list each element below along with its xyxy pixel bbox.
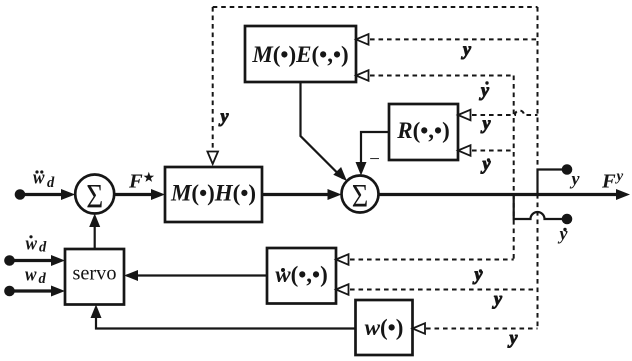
block w(.) bbox=[356, 300, 413, 355]
open arrow into M(.)E right top bbox=[356, 34, 369, 45]
wire dashed H7 into wdot block bottom-right (y) bbox=[350, 289, 538, 291]
svg-text:d: d bbox=[39, 271, 47, 287]
wire w block output to servo bottom bbox=[96, 317, 356, 329]
svg-text:y: y bbox=[492, 289, 503, 309]
wire M(.)H(.) to sum2 bbox=[262, 193, 330, 196]
node ydot label at output dot bbox=[558, 224, 569, 244]
svg-text:F: F bbox=[601, 171, 616, 193]
summing junction sum1 bbox=[75, 175, 114, 214]
wire dashed vertical into M(.)H(.) top, x=212.7 bbox=[212, 7, 214, 153]
svg-text:F: F bbox=[128, 171, 143, 193]
node label w_d input bbox=[25, 265, 47, 288]
node ydot label H5 bbox=[481, 154, 492, 174]
arrow into servo left wdot_d bbox=[51, 255, 65, 266]
node input dot wd2dot bbox=[15, 189, 26, 200]
wire dashed H4 into R top-right (y) with hop over V2 bbox=[472, 111, 538, 116]
node label wdot_d input bbox=[26, 234, 48, 256]
wire dashed H6 into wdot block top-right (ydot) bbox=[350, 259, 514, 261]
wire dashed H5 into R bottom-right (ydot) bbox=[472, 150, 514, 152]
svg-text:M(•)E(•,•): M(•)E(•,•) bbox=[251, 42, 348, 67]
open arrow into wdot right bottom bbox=[336, 284, 349, 295]
block M(.)E(.,.) U-ME bbox=[245, 26, 356, 82]
wire wdot block to servo right bbox=[137, 274, 267, 276]
svg-text:servo: servo bbox=[73, 261, 117, 285]
wire input w_d to servo bbox=[10, 289, 53, 292]
block servo bbox=[65, 249, 124, 305]
wire dashed H3 into M(.)E bottom-right (ydot) bbox=[370, 75, 514, 77]
wire R output to sum2 minus input bbox=[361, 132, 389, 163]
node ydot label H6 bbox=[473, 264, 484, 284]
svg-text:M(•)H(•): M(•)H(•) bbox=[170, 181, 256, 206]
node output dot y bbox=[562, 164, 573, 175]
summing junction sum2 bbox=[342, 176, 379, 213]
arrow into sum1 bbox=[61, 189, 75, 200]
block wdot(.,.) bbox=[267, 248, 336, 304]
svg-text:d: d bbox=[39, 240, 47, 256]
block M(.)H(.) U-MH bbox=[165, 167, 262, 222]
open arrow into R right top bbox=[458, 110, 471, 121]
node label Fstar bbox=[128, 171, 154, 193]
svg-text:Σ: Σ bbox=[352, 179, 369, 215]
arrow up into sum1 from servo bbox=[89, 214, 100, 228]
arrow into servo right from wdot block bbox=[124, 270, 138, 281]
wire input wdot_d to servo bbox=[10, 259, 53, 262]
arrow down into sum2 from R (minus) bbox=[356, 162, 367, 176]
wire M(.)E output down-diagonal to sum2 bbox=[301, 82, 344, 179]
svg-text:Σ: Σ bbox=[86, 178, 103, 215]
wire sum2 to output Fy bbox=[379, 193, 617, 196]
node ydot label H3 bbox=[479, 80, 490, 100]
svg-text:y: y bbox=[481, 154, 492, 174]
open arrow into M(.)E right bottom bbox=[356, 70, 369, 81]
svg-text:y: y bbox=[461, 39, 472, 59]
node input dot wdot_d bbox=[4, 255, 15, 266]
svg-text:y: y bbox=[219, 106, 230, 126]
arrow diagonal into sum2 from ME bbox=[333, 167, 347, 181]
arrowheads solid bbox=[51, 162, 630, 318]
svg-text:y: y bbox=[558, 224, 569, 244]
arrow into servo bottom from w block bbox=[91, 305, 102, 319]
wire dashed top horizontal H1 y=7 bbox=[213, 6, 538, 8]
arrow into servo left w_d bbox=[51, 286, 65, 297]
svg-text:y: y bbox=[508, 328, 519, 348]
wire sum1 to M(.)H(.) bbox=[114, 193, 152, 196]
node input dot w_d bbox=[4, 286, 15, 297]
svg-text:w: w bbox=[33, 168, 45, 189]
node output dot ydot bbox=[562, 214, 573, 225]
open arrow into w right bbox=[413, 323, 426, 334]
wire dashed H8 into w block right (y) bbox=[426, 328, 538, 330]
wire y pickoff from main line to y node bbox=[538, 170, 568, 195]
arrow into sum2 from MH bbox=[328, 189, 342, 200]
arrow output Fy bbox=[616, 189, 630, 200]
wire dashed feedback vertical V1 (y bus, x=537.5) bbox=[537, 7, 539, 329]
open arrow into R right bottom bbox=[458, 145, 471, 156]
open arrow into wdot right top bbox=[336, 254, 349, 265]
svg-text:y: y bbox=[473, 264, 484, 284]
node label wd2dot input bbox=[33, 168, 55, 192]
open arrow down into M(.)H(.) top bbox=[207, 152, 218, 165]
wire main input wd2dot to sum 1 bbox=[20, 193, 62, 196]
svg-text:d: d bbox=[47, 175, 55, 191]
block R(.,.) bbox=[389, 104, 458, 160]
wire ydot pickoff with hop over V1 bbox=[514, 195, 567, 220]
wire servo up to sum1 bbox=[94, 226, 96, 249]
svg-text:y: y bbox=[481, 113, 492, 133]
svg-text:w: w bbox=[25, 265, 37, 286]
wire dashed H2 into M(.)E top-right (y) bbox=[370, 38, 538, 40]
arrowheads open (dashed wires) bbox=[207, 34, 470, 334]
svg-text:y: y bbox=[615, 169, 624, 185]
svg-text:R(•,•): R(•,•) bbox=[396, 118, 450, 143]
svg-text:w(•,•): w(•,•) bbox=[275, 262, 328, 287]
node label Fy output bbox=[601, 169, 624, 193]
wire dashed feedback vertical V2 (ydot bus, x=513.7) bbox=[513, 76, 515, 259]
svg-text:w(•): w(•) bbox=[365, 315, 404, 340]
arrow into M(.)H(.) bbox=[151, 189, 165, 200]
svg-text:y: y bbox=[570, 169, 581, 189]
svg-text:−: − bbox=[368, 149, 381, 170]
